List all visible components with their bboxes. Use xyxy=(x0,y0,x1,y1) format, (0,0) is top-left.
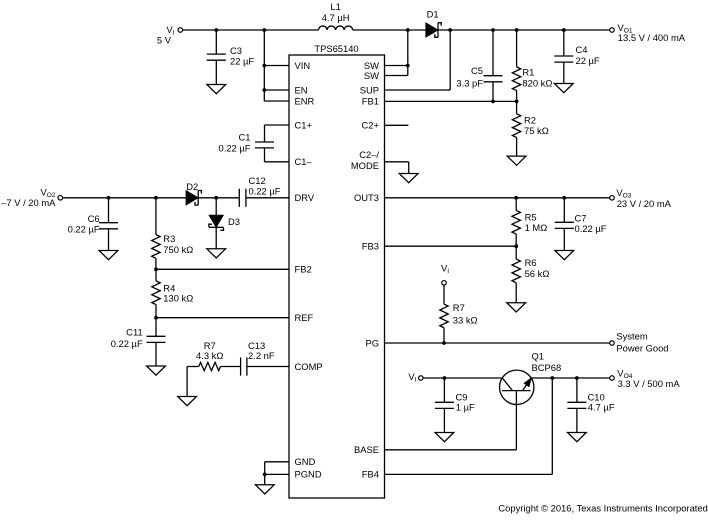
capacitor C9 xyxy=(435,378,454,433)
svg-text:3.3 pF: 3.3 pF xyxy=(456,77,483,88)
ground below R2 xyxy=(507,156,526,165)
junction top rail SUP branch xyxy=(448,28,452,32)
capacitor C6 xyxy=(99,198,118,251)
label C3 22uF xyxy=(230,45,254,67)
svg-text:C12: C12 xyxy=(249,175,266,186)
pin FB3 xyxy=(362,241,379,252)
label VO4 3.3V 500mA xyxy=(617,367,680,389)
wire top rail left of L1 xyxy=(183,29,319,31)
terminal VI input xyxy=(178,28,183,33)
wire C2-/MODE to ground xyxy=(385,162,409,174)
pin GND xyxy=(295,456,316,467)
copyright notice xyxy=(498,502,707,513)
label C9 1uF xyxy=(456,391,476,412)
label D2 xyxy=(186,181,198,192)
svg-text:C11: C11 xyxy=(126,327,143,338)
label C7 0.22uF xyxy=(575,213,607,234)
resistor R5 xyxy=(512,198,520,246)
junction top rail R1 xyxy=(515,28,519,32)
label Q1 BCP68 xyxy=(532,351,562,374)
capacitor C1 flying xyxy=(255,125,289,162)
label C13 2.2nF xyxy=(248,340,275,361)
svg-text:REF: REF xyxy=(295,312,314,323)
junction D3 xyxy=(214,196,218,200)
svg-text:R1: R1 xyxy=(522,66,534,77)
junction C9 xyxy=(443,376,447,380)
resistor R7 pull-up 33k xyxy=(440,285,448,343)
svg-text:DRV: DRV xyxy=(295,192,315,203)
svg-text:R5: R5 xyxy=(525,212,537,223)
pin SW (upper) xyxy=(364,60,379,71)
junction R3 xyxy=(154,196,158,200)
junction FB3 R5 R6 xyxy=(514,244,518,248)
label R7 33k xyxy=(453,302,478,325)
label C11 0.22uF xyxy=(111,327,143,350)
svg-text:C3: C3 xyxy=(230,45,242,56)
wire D2 cathode to C12 xyxy=(198,197,239,199)
junction top rail C4 xyxy=(562,28,566,32)
pin FB1 xyxy=(362,96,379,107)
junction top rail SW branch xyxy=(406,28,410,32)
pin C1- xyxy=(295,156,313,167)
pin DRV xyxy=(295,192,315,203)
pin C2+ xyxy=(362,120,380,131)
wire VO2 to D2 anode xyxy=(62,197,186,199)
capacitor C13 xyxy=(241,357,289,375)
pin SW (lower) xyxy=(364,70,379,81)
svg-text:56 kΩ: 56 kΩ xyxy=(525,268,550,279)
wire VIN/EN/ENR branch xyxy=(264,30,289,101)
junction OUT3 R5 xyxy=(514,196,518,200)
ground at GND PGND xyxy=(255,485,274,494)
svg-text:ENR: ENR xyxy=(295,95,315,106)
capacitor C3 xyxy=(207,30,226,85)
junction top rail C5 xyxy=(491,28,495,32)
svg-text:C5: C5 xyxy=(471,65,483,76)
terminal System Power Good xyxy=(610,341,615,346)
junction VIN xyxy=(262,64,266,68)
wire PG net xyxy=(385,342,610,344)
label U1 TPS65140 xyxy=(314,43,358,54)
svg-text:3.3 V / 500 mA: 3.3 V / 500 mA xyxy=(618,378,681,389)
svg-text:0.22 µF: 0.22 µF xyxy=(249,185,281,196)
wire BASE net xyxy=(385,449,517,451)
svg-text:C2+: C2+ xyxy=(362,120,380,131)
label R4 130k xyxy=(163,283,193,304)
label C12 0.22uF xyxy=(249,175,281,197)
svg-text:FB2: FB2 xyxy=(295,264,312,275)
label VI Q1 xyxy=(408,371,416,384)
ground below C7 xyxy=(555,251,574,260)
wire GND PGND to ground xyxy=(265,462,289,485)
diode D1 xyxy=(426,23,441,38)
wire SW pins to rail xyxy=(385,30,408,76)
svg-text:C4: C4 xyxy=(576,44,588,55)
wire Q1 emitter to VO4 xyxy=(531,377,610,379)
junction C6 xyxy=(107,196,111,200)
svg-text:13.5 V / 400 mA: 13.5 V / 400 mA xyxy=(618,32,686,43)
svg-text:1 MΩ: 1 MΩ xyxy=(525,222,548,233)
wire FB2 net xyxy=(156,268,289,270)
svg-text:VIN: VIN xyxy=(295,60,311,71)
pin EN xyxy=(295,84,308,95)
wire VI to Q1 collector xyxy=(423,377,502,379)
svg-text:GND: GND xyxy=(295,456,316,467)
svg-text:750 kΩ: 750 kΩ xyxy=(163,244,193,255)
wire FB4 net xyxy=(385,378,553,474)
svg-text:22 µF: 22 µF xyxy=(230,55,254,66)
capacitor C10 xyxy=(567,378,586,433)
svg-text:R2: R2 xyxy=(524,114,536,125)
capacitor C7 xyxy=(555,198,574,251)
label System Power Good xyxy=(616,331,668,354)
svg-text:5 V: 5 V xyxy=(157,34,172,45)
svg-text:FB1: FB1 xyxy=(362,96,379,107)
wire OUT3 net xyxy=(385,197,610,199)
label R7 4.3k xyxy=(196,340,223,361)
svg-text:Copyright © 2016, Texas Instru: Copyright © 2016, Texas Instruments Inco… xyxy=(498,502,707,513)
label VO1 13.5V 400mA xyxy=(618,22,686,43)
ground below C11 xyxy=(147,366,166,375)
svg-text:FB3: FB3 xyxy=(362,241,379,252)
svg-text:–7 V / 20 mA: –7 V / 20 mA xyxy=(1,197,56,208)
resistor R7 comp xyxy=(187,362,241,396)
diode D2 xyxy=(186,191,201,206)
ground below R6 xyxy=(507,303,526,312)
label VI pull-up xyxy=(441,262,449,275)
svg-text:Q1: Q1 xyxy=(532,351,545,362)
label C6 0.22uF xyxy=(68,213,100,235)
svg-text:0.22 µF: 0.22 µF xyxy=(111,338,143,349)
resistor R2 xyxy=(512,101,520,156)
pin FB2 xyxy=(295,264,312,275)
ground below C10 xyxy=(568,433,587,442)
svg-text:C2–/: C2–/ xyxy=(359,149,379,160)
label R2 75k xyxy=(524,114,549,136)
svg-text:D1: D1 xyxy=(427,9,439,20)
junction FB2 R3 R4 xyxy=(154,267,158,271)
label C5 3.3pF xyxy=(456,65,483,88)
svg-text:C1+: C1+ xyxy=(295,119,313,130)
svg-text:R7: R7 xyxy=(453,302,465,313)
junction EN xyxy=(262,88,266,92)
svg-text:75 kΩ: 75 kΩ xyxy=(524,125,549,136)
label C10 4.7uF xyxy=(588,391,615,412)
svg-text:D3: D3 xyxy=(228,216,240,227)
junction top rail C3 xyxy=(214,28,218,32)
junction OUT3 C7 xyxy=(562,196,566,200)
capacitor C12 xyxy=(239,189,289,207)
pin BASE xyxy=(354,444,379,455)
svg-text:L1: L1 xyxy=(330,1,340,12)
label C1 0.22uF xyxy=(219,131,251,153)
label C4 22uF xyxy=(576,44,600,66)
ground below C6 xyxy=(99,251,118,260)
svg-text:BASE: BASE xyxy=(354,444,379,455)
svg-text:4.7 µF: 4.7 µF xyxy=(588,402,615,413)
svg-text:BCP68: BCP68 xyxy=(532,362,562,373)
svg-text:SUP: SUP xyxy=(360,84,379,95)
svg-text:D2: D2 xyxy=(186,181,198,192)
svg-text:130 kΩ: 130 kΩ xyxy=(163,293,193,304)
svg-text:1 µF: 1 µF xyxy=(456,402,475,413)
pin REF xyxy=(295,312,314,323)
svg-text:C1: C1 xyxy=(239,131,251,142)
junction top rail VIN branch xyxy=(262,28,266,32)
terminal VO1 output xyxy=(610,28,615,33)
svg-text:MODE: MODE xyxy=(351,160,379,171)
junction FB1 R1 R2 xyxy=(515,100,519,104)
junction C10 xyxy=(575,376,579,380)
junction FB1 C5 xyxy=(491,100,495,104)
label R6 56k xyxy=(525,257,550,279)
transistor Q1 BCP68 xyxy=(500,370,534,450)
terminal VI Q1 xyxy=(419,376,424,381)
svg-text:Power Good: Power Good xyxy=(616,342,668,353)
ground below C4 xyxy=(554,84,573,93)
terminal VO3 output xyxy=(610,196,615,201)
terminal VO4 output xyxy=(610,376,615,381)
inductor L1 xyxy=(319,26,353,30)
svg-text:OUT3: OUT3 xyxy=(354,192,379,203)
wire C2+ stub xyxy=(385,124,409,126)
terminal VO2 output xyxy=(58,196,63,201)
svg-text:22 µF: 22 µF xyxy=(576,55,600,66)
svg-text:FB4: FB4 xyxy=(362,469,379,480)
ground below D3 xyxy=(207,249,226,258)
svg-text:0.22 µF: 0.22 µF xyxy=(219,142,251,153)
resistor R3 xyxy=(152,198,160,269)
ground below C9 xyxy=(435,433,454,442)
svg-text:PGND: PGND xyxy=(295,469,322,480)
svg-text:4.3 kΩ: 4.3 kΩ xyxy=(196,350,223,361)
label L1 4.7uH xyxy=(322,1,350,23)
pin PG xyxy=(365,337,379,348)
svg-text:23 V / 20 mA: 23 V / 20 mA xyxy=(617,198,672,209)
label R1 820k xyxy=(522,66,552,88)
pin PGND xyxy=(295,469,322,480)
svg-text:PG: PG xyxy=(365,337,379,348)
svg-text:System: System xyxy=(616,331,647,342)
capacitor C4 xyxy=(554,30,573,84)
svg-text:EN: EN xyxy=(295,84,308,95)
svg-text:2.2 nF: 2.2 nF xyxy=(248,350,275,361)
svg-text:SW: SW xyxy=(364,70,379,81)
wire REF net xyxy=(156,317,289,319)
label VI 5V xyxy=(157,24,175,46)
svg-text:820 kΩ: 820 kΩ xyxy=(522,78,552,89)
label R5 1M xyxy=(525,212,548,234)
svg-text:0.22 µF: 0.22 µF xyxy=(575,223,607,234)
pin FB4 xyxy=(362,469,379,480)
svg-text:C6: C6 xyxy=(88,213,100,224)
resistor R1 xyxy=(512,30,520,101)
ground below C3 xyxy=(207,85,226,94)
pin C1+ xyxy=(295,119,313,130)
pin C2-/MODE xyxy=(351,149,380,171)
junction PGND xyxy=(263,473,267,477)
ground below R7 comp xyxy=(178,397,197,406)
svg-text:R6: R6 xyxy=(525,257,537,268)
resistor R4 xyxy=(152,269,160,317)
junction PG R7 xyxy=(442,341,446,345)
svg-text:4.7 µH: 4.7 µH xyxy=(322,12,350,23)
wire SUP to rail xyxy=(385,30,451,90)
pin SUP xyxy=(360,84,379,95)
IC U1 TPS65140 body xyxy=(289,55,385,498)
ground at C2-/MODE xyxy=(399,174,418,183)
capacitor C11 xyxy=(147,318,166,366)
terminal VI pull-up xyxy=(442,281,447,286)
capacitor C5 xyxy=(484,30,503,101)
svg-text:TPS65140: TPS65140 xyxy=(314,43,358,54)
diode D3 xyxy=(209,198,224,249)
pin ENR xyxy=(295,95,315,106)
wire FB1 net xyxy=(385,100,517,102)
svg-text:COMP: COMP xyxy=(295,361,323,372)
label R3 750k xyxy=(163,233,193,255)
svg-text:33 kΩ: 33 kΩ xyxy=(453,314,478,325)
junction REF R4 C11 xyxy=(154,316,158,320)
label D3 xyxy=(228,216,240,227)
resistor R6 xyxy=(512,246,520,303)
junction SW xyxy=(406,64,410,68)
label D1 xyxy=(427,9,439,20)
label VO2 -7V 20mA xyxy=(1,187,56,208)
pin COMP xyxy=(295,361,323,372)
pin VIN xyxy=(295,60,311,71)
wire top rail right of L1 xyxy=(353,29,610,31)
junction FB4 sense xyxy=(550,376,554,380)
svg-text:0.22 µF: 0.22 µF xyxy=(68,224,100,235)
svg-text:R3: R3 xyxy=(163,233,175,244)
wire FB3 net xyxy=(385,245,517,247)
pin OUT3 xyxy=(354,192,379,203)
label VO3 23V 20mA xyxy=(616,187,671,209)
svg-text:C1–: C1– xyxy=(295,156,313,167)
